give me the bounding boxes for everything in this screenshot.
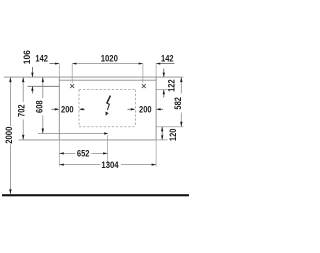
svg-text:200: 200 (139, 104, 152, 114)
dashed zone bottom right extension (156, 126, 183, 128)
mirror top edge line with extensions (4, 76, 183, 78)
electrical connection leader line (38, 133, 106, 135)
dashed install zone left (78, 90, 80, 127)
svg-text:122: 122 (167, 79, 177, 92)
extension mirror right edge down (155, 140, 157, 167)
svg-text:1304: 1304 (101, 160, 118, 170)
dimension 200 left second arrow (80, 108, 85, 110)
mounting point cross left (70, 84, 74, 88)
dimension 582 line (180, 77, 182, 93)
mirror inner top line (59, 79, 156, 81)
svg-text:652: 652 (77, 149, 90, 159)
top dimension line left tail (50, 63, 60, 65)
svg-text:200: 200 (61, 104, 74, 114)
dashed install zone top (79, 89, 135, 91)
dimension 200 right arrow (128, 108, 135, 110)
electrical connection leader arrow (104, 132, 108, 134)
svg-text:702: 702 (17, 104, 27, 117)
lightning bolt electrical symbol (106, 96, 111, 116)
dimension 1304 line (59, 164, 100, 166)
dimension 120 line (161, 127, 163, 140)
dashed install zone bottom (79, 126, 135, 128)
top dim extension x 1020 left (71, 64, 73, 83)
arrow 142 right outside (156, 63, 160, 65)
dimension 200 left arrow (52, 108, 59, 110)
mounting point cross right (142, 84, 146, 88)
mirror right edge (155, 77, 157, 140)
dashed zone top right extension (156, 89, 167, 91)
arrow 1020 left (72, 63, 76, 65)
svg-text:120: 120 (168, 129, 178, 142)
arrow 142 left outside (55, 63, 59, 65)
svg-text:582: 582 (173, 97, 183, 110)
dimension 106 lower stub (31, 86, 33, 93)
top dimension line right tail (156, 63, 174, 65)
dimension 702 line (22, 77, 24, 102)
dimension 122 lower stub (163, 90, 165, 98)
dimension 652 line (59, 152, 75, 154)
dimension 122 upper stub (163, 69, 165, 78)
svg-text:142: 142 (35, 53, 48, 63)
mirror left edge (58, 77, 60, 140)
centerline extension below connection (107, 135, 109, 166)
dimension 200 right second arrow (157, 108, 163, 110)
mounting hole row extension line (28, 85, 60, 87)
svg-text:106: 106 (22, 50, 32, 64)
top dim extension left (mirror edge up) (58, 64, 60, 78)
mirror bottom edge with left extension (19, 139, 157, 141)
svg-text:1020: 1020 (101, 53, 118, 63)
dimension 2000 line (9, 77, 11, 126)
svg-text:608: 608 (35, 100, 45, 113)
top dim extension x 1020 right (142, 64, 144, 83)
dimension 106 upper stub (31, 67, 33, 77)
svg-text:142: 142 (161, 53, 174, 63)
dimension 608 line (42, 77, 44, 98)
mirror bottom right extension (156, 139, 167, 141)
top dimension line 1020 span (72, 63, 143, 65)
top dim extension right (mirror edge up) (155, 64, 157, 78)
extension mirror left edge down (58, 140, 60, 167)
svg-text:2000: 2000 (4, 127, 14, 144)
arrow 1020 right (139, 63, 143, 65)
dashed install zone right (134, 90, 136, 127)
floor line (2, 194, 189, 196)
